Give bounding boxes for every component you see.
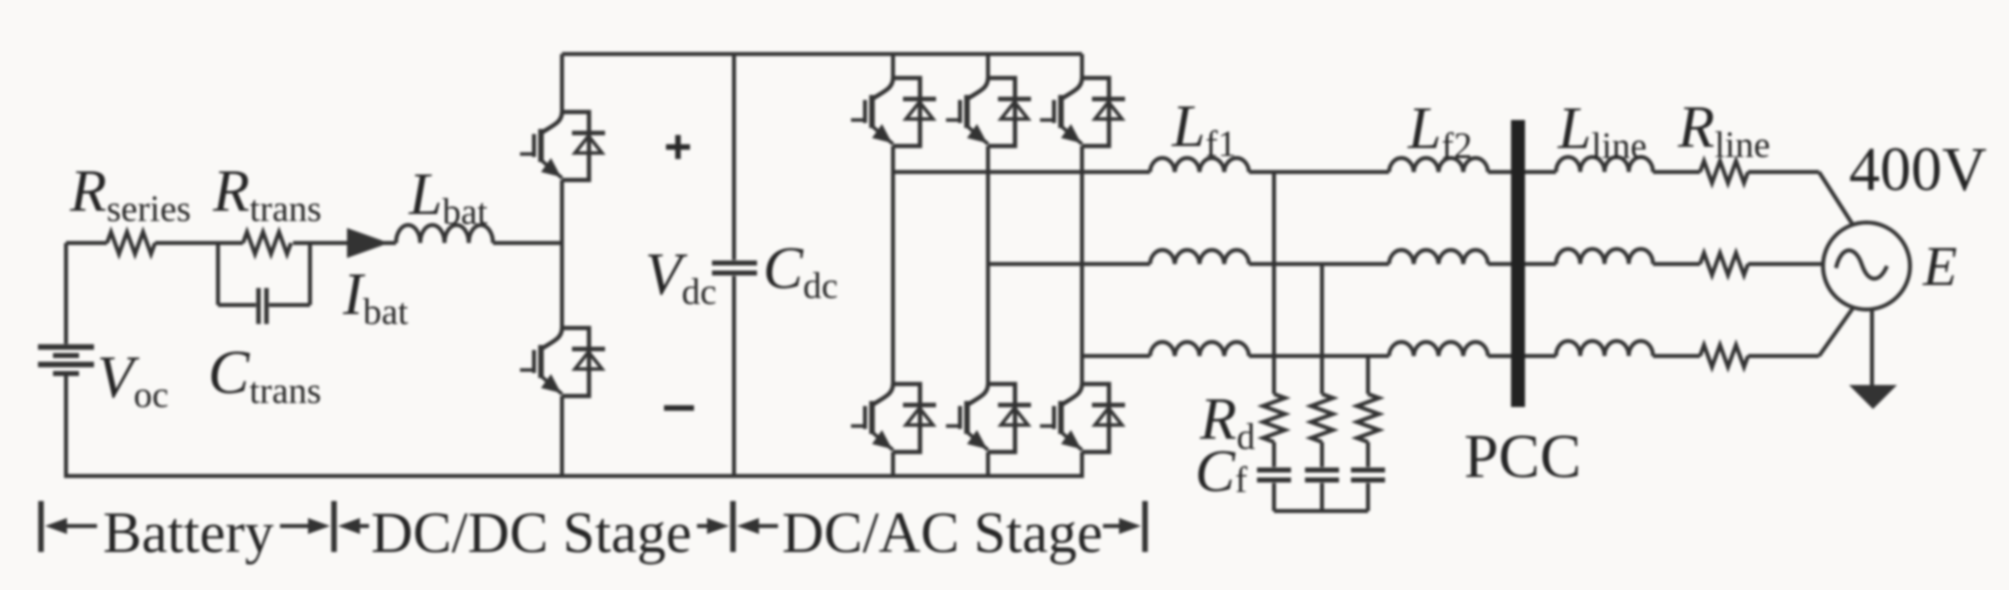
svg-text:400V: 400V — [1849, 136, 1987, 204]
svg-text:Ibat: Ibat — [342, 261, 409, 333]
svg-text:E: E — [1922, 236, 1957, 298]
svg-text:DC/DC Stage: DC/DC Stage — [371, 500, 692, 565]
svg-text:Voc: Voc — [97, 344, 169, 416]
svg-text:Vdc: Vdc — [645, 241, 717, 313]
svg-text:Lline: Lline — [1557, 95, 1647, 167]
svg-text:PCC: PCC — [1464, 423, 1581, 491]
svg-text:Lf2: Lf2 — [1407, 95, 1472, 167]
svg-text:Lf1: Lf1 — [1171, 93, 1236, 165]
svg-text:DC/AC Stage: DC/AC Stage — [782, 500, 1103, 565]
svg-text:Rtrans: Rtrans — [212, 158, 322, 230]
svg-text:Ctrans: Ctrans — [208, 339, 321, 412]
svg-text:Battery: Battery — [103, 500, 274, 565]
svg-text:Rseries: Rseries — [69, 158, 191, 230]
svg-text:Rline: Rline — [1677, 94, 1770, 166]
svg-text:Cdc: Cdc — [763, 235, 838, 307]
svg-text:Lbat: Lbat — [408, 161, 488, 233]
